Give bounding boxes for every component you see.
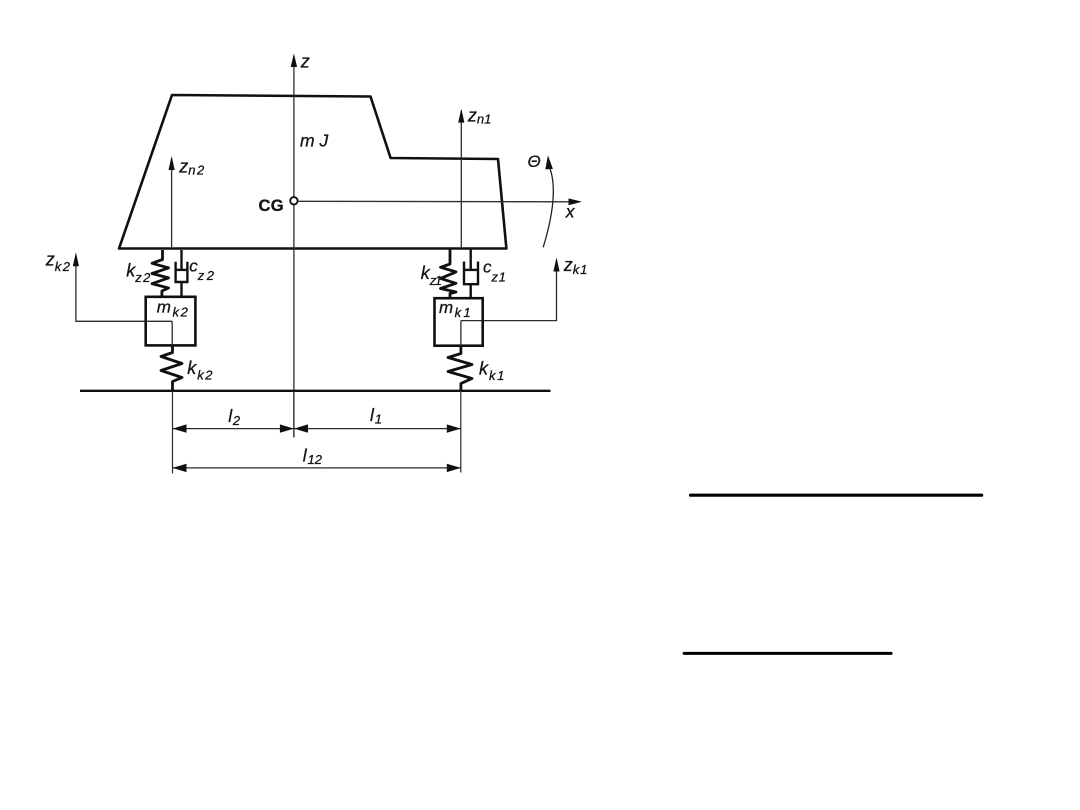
damper c_z1 cup	[464, 262, 478, 285]
wheel mass m_k1 box	[435, 298, 483, 346]
pitch arc theta	[543, 168, 553, 247]
m_k1 internal link line	[460, 321, 462, 346]
svg-text:Θ: Θ	[528, 152, 541, 171]
z_k2 axis polyline	[76, 255, 172, 321]
l_2 right arrowhead	[280, 424, 294, 432]
dimension line l_1	[294, 428, 461, 430]
damper c_z2 rod top	[180, 250, 182, 269]
ground line	[80, 390, 551, 392]
damper c_z1 rod bottom	[470, 284, 472, 298]
x axis line	[298, 200, 569, 203]
tire spring k_k1	[448, 346, 472, 391]
l_1 right arrowhead	[447, 424, 461, 432]
z_k1 axis polyline	[461, 260, 557, 321]
damper c_z1 piston bar	[465, 269, 477, 271]
pitch arc arrowhead	[545, 155, 553, 169]
z_k1 arrowhead	[553, 258, 559, 272]
vehicle body outline	[119, 95, 506, 249]
spring k_z1	[441, 250, 457, 299]
z axis arrowhead	[291, 54, 297, 68]
damper c_z2 piston bar	[175, 269, 188, 271]
equation rule 2	[684, 652, 891, 655]
equation rule 1	[691, 494, 982, 497]
center extension line	[293, 391, 295, 438]
wheel mass m_k2 box	[146, 297, 196, 346]
right extension line	[460, 391, 462, 473]
m_k2 internal link line	[171, 321, 173, 345]
left extension line	[172, 391, 174, 473]
svg-text:CG: CG	[259, 197, 284, 215]
svg-text:z: z	[300, 52, 310, 72]
z_n2 arrowhead	[169, 156, 175, 170]
tire spring k_k2	[161, 346, 182, 391]
l_1 left arrowhead	[294, 424, 308, 432]
damper c_z2 cup	[176, 262, 188, 282]
z_n1 axis line	[460, 111, 462, 248]
svg-text:x: x	[565, 202, 576, 222]
damper c_z1 rod top	[470, 250, 472, 270]
dimension line l_2	[173, 428, 294, 430]
l_12 left arrowhead	[173, 464, 187, 472]
spring k_z2	[152, 250, 169, 297]
svg-text:m J: m J	[300, 131, 328, 151]
dimension line l_12	[173, 467, 461, 469]
x axis arrowhead	[569, 198, 583, 205]
z_n1 arrowhead	[458, 109, 464, 123]
z axis line	[293, 56, 295, 438]
l_2 left arrowhead	[173, 424, 187, 432]
damper c_z2 rod bottom	[180, 282, 182, 297]
z_k2 arrowhead	[73, 252, 79, 266]
l_12 right arrowhead	[447, 464, 461, 472]
z_n2 axis line	[171, 159, 173, 248]
CG marker circle	[290, 197, 297, 204]
